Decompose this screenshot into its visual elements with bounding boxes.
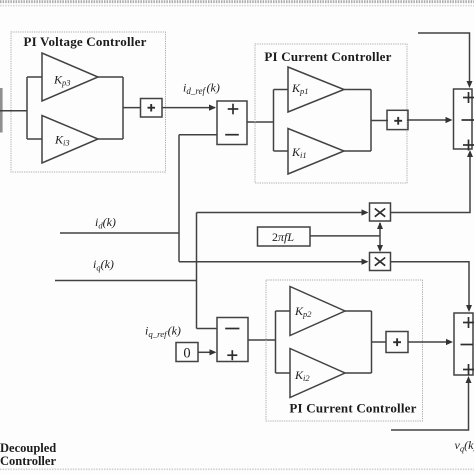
- wire: Kp2 output stub: [345, 310, 372, 312]
- wire: zero box to sum2: [198, 351, 214, 353]
- sign sum1 minus: [225, 134, 239, 136]
- wire: multiplier1 output to sum3 bottom: [391, 152, 471, 213]
- wire: Ki1 output stub: [344, 150, 371, 152]
- wire: PI2 output join vertical: [371, 311, 373, 373]
- svg-text:0: 0: [183, 346, 190, 362]
- wire: output join vertical: [122, 77, 124, 139]
- sign sum4 minus: [461, 344, 474, 346]
- sign sum3 plus bottom: [463, 144, 474, 146]
- arrow into sum3 top: [467, 81, 473, 88]
- arrow into sum4 bottom: [466, 376, 472, 383]
- arrow into X1 left: [362, 209, 369, 215]
- left cropped gray bar: [0, 88, 3, 133]
- wire: id vertical distribution: [178, 135, 180, 262]
- svg-text:2πfL: 2πfL: [272, 230, 294, 244]
- wire: id to multiplier2: [179, 261, 367, 263]
- sign sum4 plus bottom: [463, 369, 474, 371]
- gain Ki1 triangle: [288, 129, 344, 175]
- svg-text:PI Current Controller: PI Current Controller: [264, 49, 391, 64]
- wire: vd feedforward top: [418, 33, 470, 86]
- svg-text:vq(k): vq(k): [455, 438, 474, 454]
- arrow into sum2 left: [210, 349, 217, 355]
- sign sum3 plus top: [463, 97, 474, 99]
- wire: stub to Ki2: [276, 372, 291, 374]
- wire: 2pifL to X1: [379, 223, 381, 236]
- gain Kp3 triangle: [42, 53, 98, 101]
- wire: adder to sum1: [162, 107, 215, 109]
- wire: stub to Kp2: [276, 310, 291, 312]
- wire: id(k) input line: [60, 232, 179, 234]
- wire: PI1 input vertical: [273, 90, 275, 152]
- multiplier box X1: [370, 203, 391, 221]
- sign sum4 plus top: [463, 322, 474, 324]
- bottom crop dashed strip: [0, 468, 474, 470]
- top crop dashed strip: [0, 0, 474, 3]
- signs drawn as strokes: [148, 92, 474, 375]
- sign sum3 minus: [462, 119, 474, 121]
- adder box (current PI top): [387, 110, 408, 129]
- arrow into sum3 left: [446, 117, 453, 123]
- arrow into X1 bottom: [377, 222, 383, 229]
- arrow into X2 top: [377, 245, 383, 252]
- sign plus adder3: [393, 341, 401, 343]
- wire: iq to multiplier1: [197, 212, 367, 214]
- adder box (current PI bottom): [386, 332, 408, 353]
- wire: Kp3 output stub: [98, 76, 123, 78]
- wire: adder2 to sum3: [407, 119, 451, 121]
- gain Ki2 triangle: [290, 349, 345, 398]
- wire: multiplier2 output to sum4 top: [391, 262, 470, 310]
- PI Voltage Controller dashed box: [11, 32, 166, 172]
- wire: PI2 input vertical: [275, 311, 277, 373]
- PI Current Controller (bottom) dashed box: [266, 280, 423, 421]
- gain Kp1 triangle: [288, 67, 344, 112]
- zero reference box: [176, 343, 198, 362]
- summing junction sum4 (vq output): [454, 313, 473, 375]
- wire: vq feedforward bottom: [391, 378, 469, 430]
- arrow into sum4 top: [466, 305, 472, 312]
- wire: PI1 output join vertical: [370, 90, 372, 152]
- wire: to adder box 3: [372, 341, 387, 343]
- wire: iq(k) input line: [55, 280, 197, 282]
- svg-text:Decoupled: Decoupled: [0, 441, 56, 455]
- wire: to adder box 2: [371, 120, 388, 122]
- sign sum2 plus: [227, 354, 237, 356]
- wire: stub to Ki3: [27, 138, 42, 140]
- arrowheads: [209, 81, 473, 383]
- PI Current Controller (top) dashed box: [255, 44, 407, 183]
- gain Kp2 triangle: [290, 287, 345, 336]
- summing junction sum2: [217, 318, 248, 362]
- wire: 2pifL output: [310, 235, 380, 237]
- sign plus adder2: [394, 120, 402, 122]
- wire: id feedback into sum1 minus: [179, 134, 217, 136]
- wire: stub to Kp3: [27, 76, 42, 78]
- wire: stub to Ki1: [274, 150, 289, 152]
- gain block 2pifL: [258, 227, 311, 246]
- sign X2: [375, 258, 385, 266]
- wire: sum2 output to PI2: [248, 339, 276, 341]
- svg-text:PI Voltage Controller: PI Voltage Controller: [23, 34, 146, 49]
- arrow into X2 left: [362, 259, 369, 265]
- arrow into sum1: [209, 105, 216, 111]
- wire: to adder box: [123, 107, 141, 109]
- sign sum2 minus: [225, 328, 239, 330]
- multiplier box X2: [370, 253, 391, 271]
- summing junction sum1: [217, 101, 247, 145]
- wire: stub to Kp1: [274, 89, 289, 91]
- wire: Ki2 output stub: [345, 372, 372, 374]
- sign plus adder1: [148, 107, 156, 109]
- wire: iq vertical distribution: [196, 213, 198, 329]
- arrow into sum3 bottom: [467, 150, 473, 157]
- svg-text:iq(k): iq(k): [93, 257, 114, 273]
- arrow into sum4 left: [446, 339, 453, 345]
- wire: adder3 to sum4: [408, 341, 451, 343]
- wire: Kp1 output stub: [344, 89, 371, 91]
- wire: sum1 output to PI1: [247, 121, 274, 123]
- adder box (voltage PI): [141, 99, 163, 118]
- wire: 2pifL to X2: [379, 236, 381, 250]
- wire: Ki3 output stub: [98, 138, 123, 140]
- wire: voltage controller input: [0, 110, 27, 112]
- wire: input split vertical: [26, 77, 28, 139]
- gain Ki3 triangle: [42, 116, 98, 164]
- svg-text:PI Current Controller: PI Current Controller: [289, 401, 416, 416]
- sign X1: [375, 209, 385, 217]
- svg-text:id(k): id(k): [95, 215, 116, 231]
- sign sum1 plus: [228, 108, 239, 110]
- summing junction sum3 (vd output): [454, 89, 473, 149]
- svg-text:Controller: Controller: [0, 454, 56, 468]
- wire: iq feedback into sum2 minus: [197, 328, 217, 330]
